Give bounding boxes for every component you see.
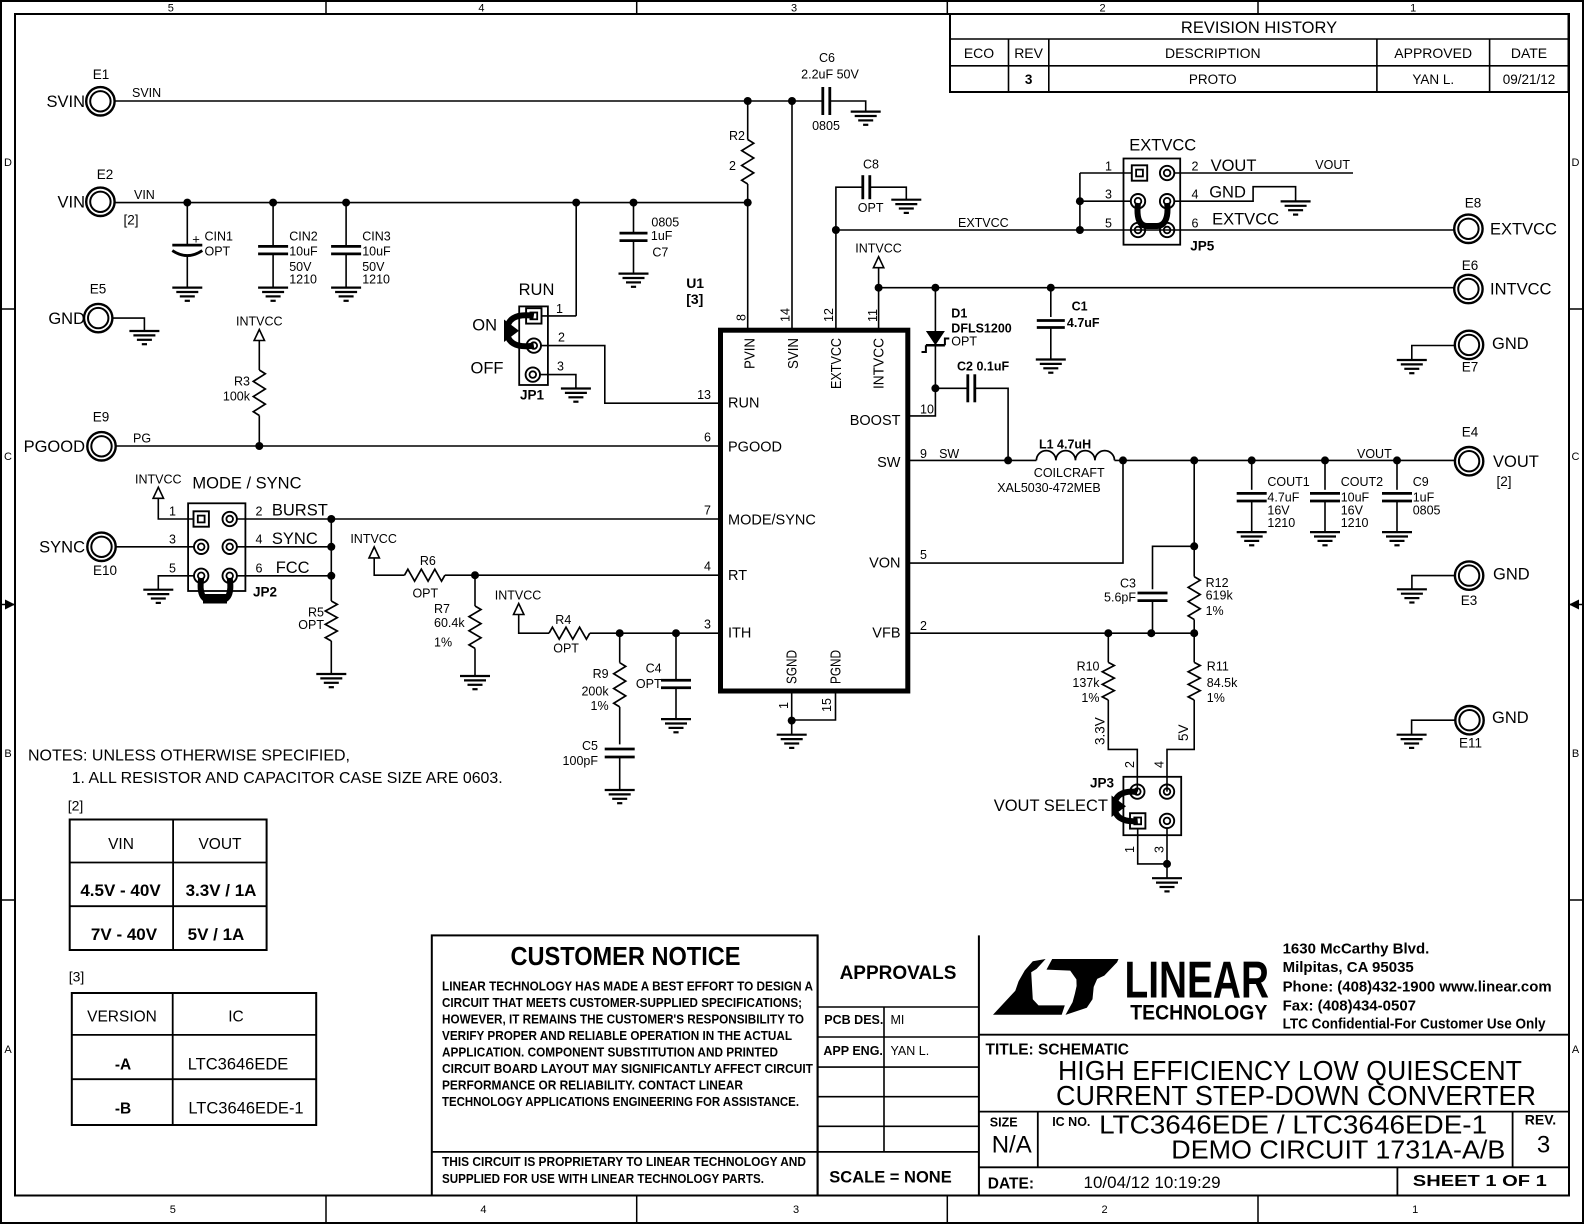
svg-text:JP2: JP2 xyxy=(253,585,277,600)
svg-text:VOUT: VOUT xyxy=(1211,157,1257,175)
svg-text:COILCRAFT: COILCRAFT xyxy=(1034,466,1105,480)
svg-text:LINEAR TECHNOLOGY HAS MADE A B: LINEAR TECHNOLOGY HAS MADE A BEST EFFORT… xyxy=(442,979,814,994)
svg-text:7: 7 xyxy=(704,504,711,518)
svg-text:APPLICATION. COMPONENT SUBSTI: APPLICATION. COMPONENT SUBSTITUTION AND … xyxy=(442,1045,778,1060)
svg-text:PGND: PGND xyxy=(829,650,845,684)
svg-text:4: 4 xyxy=(1192,188,1199,202)
svg-text:DATE:: DATE: xyxy=(988,1176,1034,1193)
svg-text:1uF: 1uF xyxy=(651,229,673,243)
svg-text:RT: RT xyxy=(728,568,747,584)
svg-text:3.3V: 3.3V xyxy=(1093,717,1108,745)
svg-text:-B: -B xyxy=(115,1101,131,1118)
svg-text:OFF: OFF xyxy=(471,360,504,378)
svg-text:JP3: JP3 xyxy=(1090,776,1115,791)
svg-text:R9: R9 xyxy=(593,667,609,681)
svg-text:5: 5 xyxy=(1105,217,1112,231)
svg-text:C9: C9 xyxy=(1413,475,1429,489)
svg-text:C: C xyxy=(1572,451,1580,463)
svg-text:6: 6 xyxy=(1192,217,1199,231)
svg-text:VIN: VIN xyxy=(134,188,155,202)
svg-text:LTC3646EDE: LTC3646EDE xyxy=(188,1056,289,1074)
svg-text:GND: GND xyxy=(1493,566,1530,584)
svg-text:3: 3 xyxy=(1153,846,1167,853)
svg-text:DATE: DATE xyxy=(1511,45,1547,61)
svg-text:B: B xyxy=(4,748,11,760)
svg-text:VERSION: VERSION xyxy=(87,1009,157,1026)
svg-text:HOWEVER, IT REMAINS THE CUSTOM: HOWEVER, IT REMAINS THE CUSTOMER'S RESPO… xyxy=(442,1012,804,1027)
svg-text:1: 1 xyxy=(1105,160,1112,174)
svg-text:FCC: FCC xyxy=(276,559,310,577)
svg-text:Fax: (408)434-0507: Fax: (408)434-0507 xyxy=(1283,997,1416,1014)
svg-text:2: 2 xyxy=(920,619,927,633)
svg-text:RUN: RUN xyxy=(728,396,759,412)
svg-text:CIN1: CIN1 xyxy=(205,230,234,244)
svg-text:2: 2 xyxy=(1100,3,1106,15)
svg-text:EXTVCC: EXTVCC xyxy=(1490,221,1557,239)
svg-text:4.7uF: 4.7uF xyxy=(1267,491,1299,505)
svg-text:DFLS1200: DFLS1200 xyxy=(951,322,1011,336)
svg-text:1uF: 1uF xyxy=(1413,491,1435,505)
svg-text:C6: C6 xyxy=(819,51,835,65)
svg-text:APPROVED: APPROVED xyxy=(1394,45,1472,61)
svg-text:4.7uF: 4.7uF xyxy=(1067,316,1100,330)
svg-text:1%: 1% xyxy=(434,635,452,649)
svg-text:VOUT: VOUT xyxy=(198,836,242,853)
svg-text:VOUT: VOUT xyxy=(1357,447,1392,461)
svg-text:1210: 1210 xyxy=(289,273,317,287)
svg-text:VOUT SELECT: VOUT SELECT xyxy=(994,797,1108,815)
svg-text:10uF: 10uF xyxy=(289,245,318,259)
svg-text:C3: C3 xyxy=(1120,577,1136,591)
svg-text:0805: 0805 xyxy=(812,119,840,133)
svg-text:A: A xyxy=(4,1044,12,1056)
svg-text:SCALE = NONE: SCALE = NONE xyxy=(829,1169,951,1187)
svg-text:E2: E2 xyxy=(97,167,114,182)
svg-text:1210: 1210 xyxy=(1341,516,1369,530)
svg-text:BOOST: BOOST xyxy=(850,413,901,429)
svg-text:XAL5030-472MEB: XAL5030-472MEB xyxy=(997,481,1101,495)
svg-text:1: 1 xyxy=(169,505,176,519)
svg-text:SVIN: SVIN xyxy=(132,86,161,100)
svg-text:OPT: OPT xyxy=(553,642,579,656)
svg-text:TECHNOLOGY APPLICATIONS ENGINE: TECHNOLOGY APPLICATIONS ENGINEERING FOR … xyxy=(442,1094,799,1109)
svg-text:09/21/12: 09/21/12 xyxy=(1503,72,1556,87)
svg-text:OPT: OPT xyxy=(298,618,324,632)
svg-text:2: 2 xyxy=(729,159,736,173)
svg-text:PROTO: PROTO xyxy=(1189,72,1237,87)
svg-text:SUPPLIED FOR USE WITH LINEAR T: SUPPLIED FOR USE WITH LINEAR TECHNOLOGY … xyxy=(442,1171,764,1186)
svg-text:RUN: RUN xyxy=(519,281,555,299)
svg-text:6: 6 xyxy=(704,431,711,445)
svg-text:9: 9 xyxy=(920,447,927,461)
svg-text:10uF: 10uF xyxy=(362,245,391,259)
svg-text:1: 1 xyxy=(1123,846,1137,853)
svg-text:15: 15 xyxy=(820,698,834,712)
svg-text:1. ALL RESISTOR AND CAPACITOR: 1. ALL RESISTOR AND CAPACITOR CASE SIZE … xyxy=(72,770,503,787)
svg-text:SVIN: SVIN xyxy=(46,93,85,111)
svg-text:SW: SW xyxy=(877,455,901,471)
svg-text:APP ENG.: APP ENG. xyxy=(823,1044,883,1058)
svg-text:5V: 5V xyxy=(1176,724,1191,741)
svg-text:5: 5 xyxy=(168,3,174,15)
svg-text:1630 McCarthy Blvd.: 1630 McCarthy Blvd. xyxy=(1283,940,1430,957)
svg-text:TECHNOLOGY: TECHNOLOGY xyxy=(1130,1002,1267,1025)
svg-text:GND: GND xyxy=(1492,335,1529,353)
svg-text:2: 2 xyxy=(1123,761,1137,768)
svg-text:VOUT: VOUT xyxy=(1493,453,1539,471)
svg-text:MODE/SYNC: MODE/SYNC xyxy=(728,513,816,529)
svg-text:R7: R7 xyxy=(434,602,450,616)
svg-text:E9: E9 xyxy=(93,410,110,425)
svg-text:E6: E6 xyxy=(1462,258,1479,273)
svg-text:EXTVCC: EXTVCC xyxy=(829,338,845,389)
svg-text:10: 10 xyxy=(920,403,934,417)
svg-text:IC NO.: IC NO. xyxy=(1052,1115,1090,1129)
svg-text:[3]: [3] xyxy=(686,291,703,307)
svg-text:SIZE: SIZE xyxy=(990,1116,1018,1130)
svg-text:PGOOD: PGOOD xyxy=(728,440,782,456)
svg-text:PGOOD: PGOOD xyxy=(24,438,86,456)
svg-text:E5: E5 xyxy=(90,282,107,297)
svg-text:VFB: VFB xyxy=(872,626,900,642)
svg-text:1%: 1% xyxy=(591,699,609,713)
svg-text:REVISION HISTORY: REVISION HISTORY xyxy=(1181,19,1337,37)
svg-text:YAN L.: YAN L. xyxy=(1412,72,1454,87)
svg-text:100k: 100k xyxy=(223,390,251,404)
svg-text:DEMO CIRCUIT 1731A-A/B: DEMO CIRCUIT 1731A-A/B xyxy=(1171,1135,1505,1165)
svg-text:JP5: JP5 xyxy=(1190,239,1215,254)
svg-text:C5: C5 xyxy=(582,739,598,753)
svg-text:10/04/12 10:19:29: 10/04/12 10:19:29 xyxy=(1084,1173,1221,1192)
svg-text:D: D xyxy=(4,157,12,169)
svg-text:R11: R11 xyxy=(1207,659,1229,673)
svg-text:INTVCC: INTVCC xyxy=(236,315,283,329)
svg-text:3.3V / 1A: 3.3V / 1A xyxy=(186,881,257,900)
svg-text:C1: C1 xyxy=(1072,300,1088,314)
svg-text:A: A xyxy=(1572,1044,1580,1056)
svg-text:[2]: [2] xyxy=(68,798,84,814)
svg-text:ECO: ECO xyxy=(964,45,994,61)
svg-text:OPT: OPT xyxy=(858,201,884,215)
svg-text:NOTES: UNLESS OTHERWISE SPECIF: NOTES: UNLESS OTHERWISE SPECIFIED, xyxy=(28,748,350,765)
svg-text:5.6pF: 5.6pF xyxy=(1104,590,1136,604)
svg-text:2: 2 xyxy=(1102,1204,1108,1216)
svg-text:619k: 619k xyxy=(1206,589,1234,603)
svg-text:B: B xyxy=(1572,748,1579,760)
svg-text:2: 2 xyxy=(558,331,565,345)
svg-text:D1: D1 xyxy=(951,307,967,321)
svg-text:CURRENT STEP-DOWN CONVERTER: CURRENT STEP-DOWN CONVERTER xyxy=(1056,1080,1536,1111)
svg-text:2.2uF 50V: 2.2uF 50V xyxy=(801,67,859,81)
svg-text:3: 3 xyxy=(1537,1132,1550,1159)
svg-text:VIN: VIN xyxy=(108,836,134,853)
svg-text:5: 5 xyxy=(920,548,927,562)
svg-text:5V / 1A: 5V / 1A xyxy=(188,925,245,944)
svg-text:1%: 1% xyxy=(1207,691,1225,705)
svg-text:CUSTOMER NOTICE: CUSTOMER NOTICE xyxy=(511,941,741,971)
svg-text:3: 3 xyxy=(791,3,797,15)
svg-text:2: 2 xyxy=(1192,160,1199,174)
svg-text:E4: E4 xyxy=(1462,425,1479,440)
svg-text:GND: GND xyxy=(1492,709,1529,727)
svg-text:INTVCC: INTVCC xyxy=(872,338,888,389)
svg-text:E7: E7 xyxy=(1462,360,1479,375)
svg-text:CIRCUIT BOARD LAYOUT MAY SIGNI: CIRCUIT BOARD LAYOUT MAY SIGNIFICANTLY A… xyxy=(442,1061,813,1076)
svg-text:R10: R10 xyxy=(1077,659,1100,673)
svg-text:OPT: OPT xyxy=(205,245,231,259)
svg-text:1%: 1% xyxy=(1081,691,1099,705)
svg-text:1%: 1% xyxy=(1206,604,1224,618)
svg-text:CIRCUIT THAT MEETS CUSTOMER-SU: CIRCUIT THAT MEETS CUSTOMER-SUPPLIED SPE… xyxy=(442,995,802,1010)
svg-text:E8: E8 xyxy=(1465,196,1482,211)
svg-text:EXTVCC: EXTVCC xyxy=(1129,137,1196,155)
svg-text:2: 2 xyxy=(256,505,263,519)
svg-text:SVIN: SVIN xyxy=(786,338,802,369)
svg-text:1: 1 xyxy=(777,702,791,709)
svg-text:1: 1 xyxy=(1410,3,1416,15)
svg-text:PCB DES.: PCB DES. xyxy=(824,1013,883,1027)
svg-text:GND: GND xyxy=(48,310,85,328)
svg-text:4.5V - 40V: 4.5V - 40V xyxy=(80,881,161,900)
svg-text:CIN3: CIN3 xyxy=(362,230,391,244)
svg-text:-A: -A xyxy=(115,1057,131,1074)
svg-text:LTC Confidential-For Customer: LTC Confidential-For Customer Use Only xyxy=(1283,1016,1547,1033)
svg-text:OPT: OPT xyxy=(412,587,438,601)
svg-text:INTVCC: INTVCC xyxy=(350,532,397,546)
svg-text:4: 4 xyxy=(1153,761,1167,768)
svg-text:BURST: BURST xyxy=(272,502,328,520)
svg-text:84.5k: 84.5k xyxy=(1207,676,1238,690)
svg-text:[2]: [2] xyxy=(123,213,138,228)
svg-text:DESCRIPTION: DESCRIPTION xyxy=(1165,45,1261,61)
svg-text:C: C xyxy=(4,451,12,463)
svg-text:ITH: ITH xyxy=(728,626,751,642)
svg-text:3: 3 xyxy=(1105,188,1112,202)
svg-text:INTVCC: INTVCC xyxy=(495,589,542,603)
svg-text:SHEET 1 OF 1: SHEET 1 OF 1 xyxy=(1413,1173,1547,1190)
svg-text:4: 4 xyxy=(704,560,711,574)
svg-text:SW: SW xyxy=(939,447,959,461)
svg-text:PERFORMANCE OR RELIABILITY. C: PERFORMANCE OR RELIABILITY. CONTACT LINE… xyxy=(442,1078,744,1093)
svg-text:10uF: 10uF xyxy=(1341,491,1370,505)
svg-text:E3: E3 xyxy=(1461,593,1478,608)
svg-text:PG: PG xyxy=(133,431,151,445)
svg-text:YAN L.: YAN L. xyxy=(891,1044,930,1058)
svg-text:JP1: JP1 xyxy=(520,388,545,403)
svg-text:+: + xyxy=(192,231,200,246)
svg-text:4: 4 xyxy=(480,1204,486,1216)
svg-text:0805: 0805 xyxy=(1413,504,1441,518)
svg-text:COUT2: COUT2 xyxy=(1341,475,1383,489)
svg-text:3: 3 xyxy=(1025,72,1033,87)
svg-text:GND: GND xyxy=(1209,184,1246,202)
svg-text:137k: 137k xyxy=(1072,676,1100,690)
svg-text:3: 3 xyxy=(793,1204,799,1216)
svg-text:REV.: REV. xyxy=(1525,1112,1556,1128)
svg-text:0805: 0805 xyxy=(651,216,679,230)
svg-text:C7: C7 xyxy=(652,245,668,259)
svg-text:INTVCC: INTVCC xyxy=(135,472,182,486)
svg-text:COUT1: COUT1 xyxy=(1267,475,1309,489)
svg-text:12: 12 xyxy=(822,308,836,322)
svg-text:VON: VON xyxy=(869,556,900,572)
svg-text:MI: MI xyxy=(891,1013,905,1027)
svg-text:[3]: [3] xyxy=(69,969,85,985)
svg-text:VOUT: VOUT xyxy=(1315,158,1350,172)
svg-text:R3: R3 xyxy=(234,375,250,389)
svg-text:OPT: OPT xyxy=(951,335,977,349)
svg-text:100pF: 100pF xyxy=(563,754,599,768)
svg-text:8: 8 xyxy=(735,314,749,321)
svg-text:CIN2: CIN2 xyxy=(289,230,318,244)
svg-text:4: 4 xyxy=(478,3,484,15)
svg-text:PVIN: PVIN xyxy=(742,338,758,369)
svg-text:C2 0.1uF: C2 0.1uF xyxy=(957,360,1009,374)
svg-text:R6: R6 xyxy=(420,554,436,568)
svg-text:LTC3646EDE-1: LTC3646EDE-1 xyxy=(188,1100,303,1118)
svg-text:L1 4.7uH: L1 4.7uH xyxy=(1039,437,1091,451)
svg-text:INTVCC: INTVCC xyxy=(1490,281,1552,299)
svg-text:EXTVCC: EXTVCC xyxy=(958,216,1009,230)
svg-text:R2: R2 xyxy=(729,129,745,143)
svg-text:Milpitas, CA 95035: Milpitas, CA 95035 xyxy=(1283,959,1414,976)
svg-text:[2]: [2] xyxy=(1496,474,1511,489)
svg-text:4: 4 xyxy=(256,532,263,546)
svg-text:IC: IC xyxy=(228,1009,244,1026)
svg-text:1: 1 xyxy=(556,302,563,316)
svg-text:E10: E10 xyxy=(93,563,117,578)
svg-text:VIN: VIN xyxy=(57,194,85,212)
svg-text:5: 5 xyxy=(170,1204,176,1216)
svg-text:ON: ON xyxy=(472,317,497,335)
svg-text:5: 5 xyxy=(169,561,176,575)
svg-text:VERIFY PROPER AND RELIABLE OPE: VERIFY PROPER AND RELIABLE OPERATION IN … xyxy=(442,1028,792,1043)
svg-text:14: 14 xyxy=(779,308,793,322)
svg-text:SGND: SGND xyxy=(785,650,801,684)
svg-text:13: 13 xyxy=(697,388,711,402)
svg-text:E11: E11 xyxy=(1459,736,1482,751)
svg-text:OPT: OPT xyxy=(636,677,662,691)
svg-text:Phone: (408)432-1900 www.line: Phone: (408)432-1900 www.linear.com xyxy=(1283,979,1552,996)
svg-text:200k: 200k xyxy=(581,685,609,699)
svg-text:3: 3 xyxy=(704,618,711,632)
svg-text:1: 1 xyxy=(1412,1204,1418,1216)
svg-text:INTVCC: INTVCC xyxy=(855,242,902,256)
svg-text:3: 3 xyxy=(557,360,564,374)
svg-text:6: 6 xyxy=(256,561,263,575)
svg-text:C4: C4 xyxy=(646,662,662,676)
svg-text:1210: 1210 xyxy=(362,273,390,287)
svg-text:D: D xyxy=(1572,157,1580,169)
svg-text:C8: C8 xyxy=(863,158,879,172)
svg-text:SYNC: SYNC xyxy=(272,530,318,548)
svg-text:3: 3 xyxy=(169,532,176,546)
svg-text:R4: R4 xyxy=(555,613,571,627)
svg-text:EXTVCC: EXTVCC xyxy=(1212,211,1279,229)
svg-text:E1: E1 xyxy=(93,67,110,82)
svg-text:7V - 40V: 7V - 40V xyxy=(91,925,158,944)
svg-text:REV: REV xyxy=(1014,45,1043,61)
svg-text:U1: U1 xyxy=(686,275,704,291)
svg-text:SYNC: SYNC xyxy=(39,539,85,557)
svg-text:APPROVALS: APPROVALS xyxy=(840,963,957,984)
svg-text:MODE / SYNC: MODE / SYNC xyxy=(192,475,301,493)
svg-text:N/A: N/A xyxy=(992,1132,1032,1159)
svg-text:THIS CIRCUIT IS PROPRIETARY TO: THIS CIRCUIT IS PROPRIETARY TO LINEAR TE… xyxy=(442,1154,806,1169)
svg-text:1210: 1210 xyxy=(1267,516,1295,530)
svg-text:60.4k: 60.4k xyxy=(434,616,465,630)
